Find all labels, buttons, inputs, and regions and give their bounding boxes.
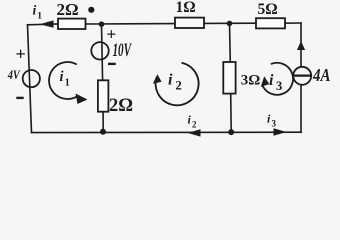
svg-text:2Ω: 2Ω [109,96,133,116]
svg-text:1Ω: 1Ω [176,0,196,16]
svg-text:10V: 10V [113,41,132,61]
svg-text:4A: 4A [312,65,330,85]
svg-text:4V: 4V [7,68,21,82]
svg-text:2Ω: 2Ω [57,0,79,19]
svg-text:5Ω: 5Ω [258,1,278,18]
svg-text:+: + [16,44,26,64]
svg-text:3Ω: 3Ω [241,72,261,88]
